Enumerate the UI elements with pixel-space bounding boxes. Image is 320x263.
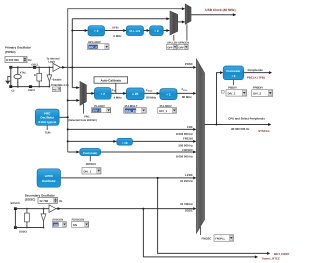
blue box FRC oscillator [35,109,59,125]
svg-text:Peripherals: Peripherals [248,68,264,72]
wire FRC into postscaler [68,151,80,153]
svg-text:PLLMULT: PLLMULT [125,104,138,108]
wire POSC net vertical [71,19,73,88]
wire SOSC left vertical [14,210,16,226]
wire FRCDIV postscaler output [101,151,194,153]
svg-text:MUL_20: MUL_20 [125,109,136,113]
svg-text:FRCDIV: FRCDIV [182,148,193,152]
register PLLIDIV [91,104,110,113]
pin SOSCI [14,226,17,229]
mux PLL input select [80,82,86,106]
wire SOSC resistor stubs [26,209,28,228]
wire enable tick [51,78,54,80]
svg-text:÷ 2: ÷ 2 [100,92,105,96]
svg-text:FRCPLL: FRCPLL [215,238,225,241]
wire SOSC enable stubs [42,209,44,228]
svg-text:UPLLIDIV: UPLLIDIV [88,40,101,44]
svg-text:FRC: FRC [84,115,89,118]
svg-text:31 250 Hz: 31 250 Hz [180,179,193,183]
svg-text:UFRCEN: UFRCEN [178,41,189,44]
wire FRCDIV register stub [89,156,91,162]
blue box USB div2 [150,26,164,36]
wire PB postscaler register stub [232,80,234,85]
register UPLLIDIV [88,40,110,50]
svg-text:CPU and Select Peripherals: CPU and Select Peripherals [228,117,265,121]
wire POSC top [11,66,53,68]
svg-text:Enable: Enable [53,79,62,82]
svg-text:USB Clock (48 MHz): USB Clock (48 MHz) [205,8,235,12]
svg-text:PBCLK (TPB): PBCLK (TPB) [247,75,265,79]
wire FRC direct to big mux [68,128,194,130]
pin bottom-left [9,85,12,88]
wire SOSC output [56,208,193,210]
svg-text:x 20: x 20 [132,92,138,96]
wire TUN stub [46,125,48,130]
wire UPLLEN select stub [173,35,175,41]
svg-text:XTAL: XTAL [20,71,27,74]
svg-text:Auto-Calibrate: Auto-Calibrate [100,78,121,82]
wire crystal branch [17,67,19,86]
wire POSC left vertical [10,68,12,86]
wire SYSCLK up to PB postscaler [217,73,223,125]
svg-text:FSOSCEN: FSOSCEN [72,218,85,221]
register PLLODIV [158,104,177,113]
wire ground branch [8,76,11,80]
svg-text:ON: ON [54,223,58,227]
wire POSC bottom [11,86,50,88]
register PBDIV [226,86,247,97]
svg-text:÷ 2: ÷ 2 [154,29,159,33]
svg-text:PBDIV: PBDIV [228,86,237,90]
wire USB clock output [191,14,236,16]
blue box UPLLIDIV divider [88,26,105,36]
wire POSC to UPLLEN mux [72,18,169,20]
mux FNOSC big system mux [196,59,204,233]
pin SOSCO [14,207,17,210]
svg-text:UFIN: UFIN [112,25,119,29]
wire UPLLEN mux to UFRCEN mux [178,21,185,23]
resistor R [37,73,42,81]
register UFRCEN [178,41,189,49]
svg-text:80 MHz: 80 MHz [146,95,156,99]
svg-text:DIV_1: DIV_1 [159,109,167,113]
wire SOSC top [17,208,49,210]
register UPLLEN [167,41,178,49]
wire FRC to PLL input mux lower [68,99,80,101]
svg-text:PLLODIV: PLLODIV [160,104,172,108]
enable buffer SOSC [41,214,46,221]
svg-text:Postscaler: Postscaler [226,69,241,73]
svg-text:FNOSC: FNOSC [202,236,212,240]
box auto-calibrate [94,77,128,83]
svg-text:OFF: OFF [179,46,185,49]
wire resistor stubs [38,67,40,86]
enable buffer POSC [47,75,52,81]
svg-text:÷ 2: ÷ 2 [231,74,235,78]
svg-text:SOSCI: SOSCI [19,231,27,234]
svg-text:PLL x24: PLL x24 [130,29,141,33]
blue box PLLIDIV div2 [94,88,111,100]
blue box LPRC oscillator [37,169,60,187]
svg-text:LPRC: LPRC [45,174,54,178]
blue box FRC postscaler [80,149,101,156]
wire big mux select stub [200,227,202,235]
svg-text:FPBDIV: FPBDIV [253,86,263,90]
svg-text:8 MHz typical: 8 MHz typical [38,120,56,124]
register POSCMD [52,87,60,92]
wire POSC to PLL input mux upper [72,87,79,89]
wire FRC to div16 and out [68,140,194,142]
svg-text:FRCDIV: FRCDIV [86,162,97,166]
svg-text:(POSC): (POSC) [5,50,16,54]
svg-text:Hz: Hz [59,199,63,203]
wire USB row [72,30,169,32]
svg-text:C2: C2 [11,89,15,92]
wire FRC net vertical + top run to UFRCEN mux [68,9,185,152]
blue box PLLMULT x20 [126,88,144,100]
wire PBCLK output [244,72,271,74]
svg-text:80 000 000 Hz: 80 000 000 Hz [231,127,250,131]
svg-text:SOSC: SOSC [185,209,193,213]
svg-text:÷ 16: ÷ 16 [122,141,128,145]
svg-text:OSC1: OSC1 [31,63,39,66]
svg-text:32 768 Hz: 32 768 Hz [180,202,193,206]
svg-text:FRC/16: FRC/16 [183,137,193,141]
svg-text:32 768: 32 768 [39,199,48,203]
wire PLL mux select stub [83,104,85,114]
amp SOSC [49,205,56,213]
svg-text:8 000 000 Hz: 8 000 000 Hz [176,155,193,159]
svg-text:FPLL: FPLL [182,87,188,92]
svg-text:DIV_2: DIV_2 [228,92,236,96]
register FSOSCEN [72,222,89,228]
wire auto-calibrate tap [115,83,117,93]
svg-text:4 MHz: 4 MHz [114,95,123,99]
svg-text:SOSCEN: SOSCEN [52,218,63,221]
svg-text:Logic: Logic [48,61,55,64]
svg-text:OFF: OFF [167,46,173,49]
blue box PB postscaler [223,66,243,80]
wire SOSC bottom [17,227,44,229]
crystal XTAL [14,74,21,78]
svg-text:DIV_4: DIV_4 [89,45,97,49]
blue box USB PLL multiplier [126,26,143,36]
wire PLL row [87,92,194,94]
wire POSC main run to big mux [60,66,193,68]
ground symbol [5,81,10,85]
blue box PLLODIV div1 [160,89,177,100]
register PLLMULT [124,104,146,113]
svg-text:Hz: Hz [28,58,32,62]
svg-text:OSC2: OSC2 [28,89,36,92]
svg-text:TUN: TUN [45,130,51,134]
svg-text:DIV_2: DIV_2 [253,92,261,96]
svg-text:FVCO: FVCO [146,88,153,93]
svg-text:Primary Oscillator: Primary Oscillator [5,46,32,50]
svg-text:UPLLEN: UPLLEN [167,41,178,44]
input box SOSC frequency [38,197,63,203]
wire LPRC drop to WDT [158,178,269,254]
wire LPRC output [61,177,194,179]
svg-text:Timer1, RTCC: Timer1, RTCC [262,256,280,260]
wire SOSC drop to Timer1 [143,209,256,257]
arrowheads [58,7,272,258]
svg-text:R: R [34,74,36,77]
svg-text:Postscaler: Postscaler [83,151,98,155]
pin top-left [9,66,12,69]
svg-text:HS: HS [53,89,57,92]
svg-text:÷ 1: ÷ 1 [166,93,171,97]
pin OSC2 [29,85,32,88]
wire FRC box output [59,116,67,118]
svg-text:80 MHz: 80 MHz [182,95,192,99]
svg-text:DIV_2: DIV_2 [93,109,101,113]
svg-text:SYSCLK: SYSCLK [258,129,269,133]
mux UPLLEN [170,11,178,35]
svg-text:DIV_1: DIV_1 [84,169,92,173]
svg-text:Oscillator: Oscillator [42,179,57,183]
blue box div16 [117,138,133,145]
mux UFRCEN [185,4,191,24]
svg-text:500 000 Hz: 500 000 Hz [178,143,193,147]
svg-text:÷ 4: ÷ 4 [94,29,99,33]
amp POSC [53,63,60,71]
resistor SOSC [25,213,30,222]
svg-text:2 MHz: 2 MHz [113,34,122,38]
wire enable buffer stubs [48,67,50,86]
svg-text:8 000 000: 8 000 000 [6,58,19,62]
register FPBDIV [252,86,273,97]
checkbox PBDIV [221,90,224,93]
wire SYSCLK output [205,124,270,126]
svg-text:8 000 000 Hz: 8 000 000 Hz [176,132,193,136]
register FRCDIV [82,162,101,174]
svg-text:ON: ON [73,223,77,227]
register SOSCEN [52,222,66,228]
svg-text:PLLIDIV: PLLIDIV [94,104,105,108]
wire UFRCEN select stub [186,24,188,40]
svg-text:FRC: FRC [187,125,193,129]
input box POSC frequency [5,57,32,63]
svg-text:LPRC: LPRC [185,173,193,177]
svg-text:(SOSC): (SOSC) [25,197,36,201]
register FNOSC [214,235,234,241]
svg-text:SOSCO: SOSCO [10,202,19,205]
svg-text:(Selected from FNOSC): (Selected from FNOSC) [68,119,97,122]
svg-text:POSC: POSC [185,62,193,66]
pin OSC1 [33,66,36,69]
